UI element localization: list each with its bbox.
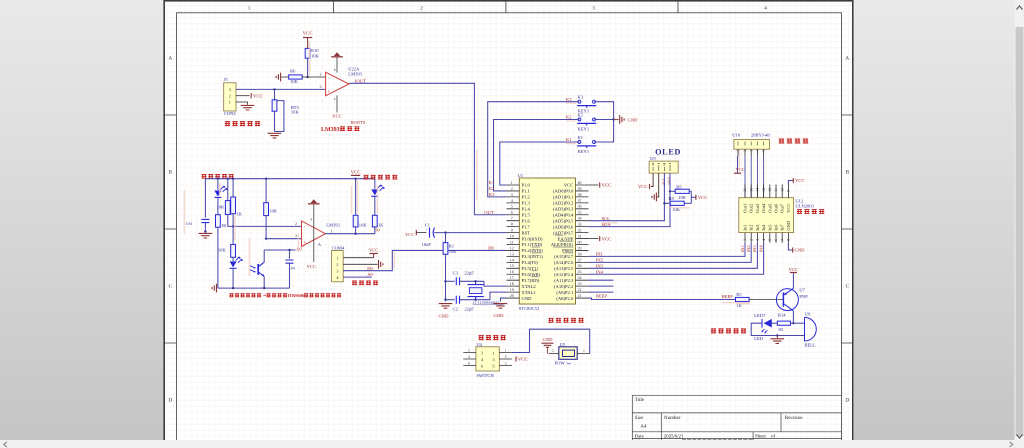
svg-text:GND: GND — [628, 117, 639, 122]
svg-text:22pF: 22pF — [464, 307, 474, 312]
svg-text:4: 4 — [764, 5, 767, 11]
svg-text:SCL: SCL — [602, 216, 611, 221]
caption power indicator LED — [202, 174, 207, 179]
caption signal indicator LED — [364, 175, 369, 180]
svg-text:-: - — [328, 75, 330, 81]
wire SCL OLED to MCU pin34 — [589, 173, 665, 221]
GND ULN pin8 — [788, 243, 793, 250]
svg-text:15: 15 — [749, 188, 753, 192]
svg-text:IN4: IN4 — [758, 245, 763, 253]
resistor 10K branch c — [265, 179, 267, 203]
svg-text:XTAL1: XTAL1 — [522, 290, 537, 295]
svg-text:VCC: VCC — [564, 183, 573, 188]
svg-text:30: 30 — [578, 239, 582, 244]
svg-text:KEY1: KEY1 — [578, 127, 590, 132]
svg-text:Number: Number — [664, 415, 681, 421]
svg-text:P1.5: P1.5 — [522, 212, 531, 217]
ground module bottom side — [212, 284, 216, 293]
svg-text:2: 2 — [229, 93, 231, 98]
svg-text:(AD1)P0.1: (AD1)P0.1 — [553, 195, 574, 200]
svg-text:5: 5 — [762, 150, 766, 152]
svg-text:Date: Date — [635, 433, 644, 439]
svg-text:24: 24 — [578, 275, 582, 280]
svg-text:4: 4 — [511, 198, 513, 203]
LED D1 power indicator — [217, 179, 219, 190]
svg-text:1: 1 — [229, 100, 231, 105]
svg-text:1: 1 — [336, 255, 338, 260]
svg-text:32: 32 — [578, 228, 582, 233]
svg-text:Out1: Out1 — [743, 204, 748, 213]
svg-text:K3: K3 — [489, 192, 495, 197]
svg-text:VCC: VCC — [698, 195, 708, 201]
svg-text:10K: 10K — [217, 205, 226, 210]
op-amp U22A power pins — [336, 58, 338, 73]
svg-text:In4: In4 — [761, 224, 766, 231]
svg-text:3: 3 — [493, 357, 495, 362]
svg-text:3: 3 — [320, 84, 322, 89]
svg-text:39: 39 — [578, 186, 582, 191]
wire IN2 — [589, 243, 752, 263]
ground crystal left — [439, 304, 453, 309]
svg-text:K1: K1 — [489, 180, 495, 185]
svg-text:(AD5)P0.5: (AD5)P0.5 — [553, 218, 574, 223]
svg-text:P3.1(TXD): P3.1(TXD) — [522, 242, 543, 247]
svg-text:VCC: VCC — [303, 31, 313, 37]
wire IN3 — [589, 243, 758, 268]
svg-text:6: 6 — [774, 239, 778, 241]
svg-text:(AD3)P0.3: (AD3)P0.3 — [553, 207, 574, 212]
svg-text:R5: R5 — [736, 292, 742, 297]
resistor 10K lower — [232, 226, 234, 244]
svg-text:VCC: VCC — [351, 169, 361, 175]
title block — [632, 395, 841, 448]
svg-text:PSEN: PSEN — [562, 248, 574, 253]
resistor R1 10K — [445, 233, 447, 243]
svg-text:LED7: LED7 — [754, 313, 766, 318]
wire IN4 — [589, 243, 764, 274]
svg-text:8: 8 — [787, 239, 791, 241]
svg-text:10K: 10K — [218, 248, 227, 253]
resistor R8 pullup — [663, 202, 665, 204]
svg-text:11: 11 — [510, 239, 514, 244]
svg-text:GND: GND — [494, 313, 505, 318]
svg-text:ALE/PROG: ALE/PROG — [551, 242, 574, 247]
svg-text:22pF: 22pF — [464, 271, 474, 276]
svg-text:LM393: LM393 — [321, 127, 340, 133]
svg-text:12: 12 — [510, 245, 514, 250]
svg-text:1K: 1K — [778, 327, 784, 332]
svg-text:SDA: SDA — [667, 177, 672, 185]
caption buzzer alarm — [711, 329, 716, 334]
svg-text:VCC: VCC — [638, 184, 648, 190]
svg-text:23: 23 — [578, 281, 582, 286]
svg-text:OLED: OLED — [655, 148, 681, 157]
COM4 pin3 D0 wire — [343, 250, 506, 270]
wire IN1 — [589, 243, 746, 257]
stepper pin stubs — [738, 149, 764, 156]
svg-text:Out3: Out3 — [755, 203, 760, 213]
svg-text:Revision: Revision — [785, 415, 803, 421]
svg-text:+: + — [327, 89, 330, 95]
driver U12 ULN2003 — [739, 198, 794, 233]
svg-text:K2: K2 — [566, 115, 572, 120]
wire stub MCU pin23 — [589, 285, 614, 287]
svg-text:Out5: Out5 — [767, 203, 772, 213]
svg-text:VCC: VCC — [518, 357, 528, 363]
svg-text:12: 12 — [768, 188, 772, 192]
svg-text:(A8)P2.0: (A8)P2.0 — [556, 296, 574, 301]
svg-text:BELL: BELL — [805, 343, 817, 348]
svg-text:1: 1 — [248, 5, 251, 11]
svg-text:2: 2 — [295, 221, 297, 226]
svg-text:Out2: Out2 — [749, 204, 754, 213]
svg-text:8: 8 — [310, 217, 312, 221]
svg-text:1K: 1K — [221, 223, 227, 228]
LED D2 emitter — [230, 261, 237, 267]
svg-text:In3: In3 — [755, 224, 760, 231]
svg-text:10uF: 10uF — [422, 242, 432, 247]
ground (side) left of R6 — [276, 73, 280, 82]
svg-text:C2: C2 — [453, 307, 459, 312]
svg-text:3: 3 — [229, 87, 231, 92]
wire crystal to XTAL2 — [484, 281, 507, 286]
push button K2 KEY1 — [578, 118, 581, 121]
svg-text:(AD4)P0.4: (AD4)P0.4 — [553, 212, 574, 217]
svg-text:10K: 10K — [311, 53, 320, 58]
resistor R6 — [289, 75, 303, 79]
svg-text:28: 28 — [578, 251, 582, 256]
svg-text:A0: A0 — [367, 272, 373, 277]
resistor 1K signal — [372, 215, 377, 227]
svg-text:29: 29 — [578, 245, 582, 250]
svg-text:C: C — [169, 284, 173, 290]
svg-text:15: 15 — [510, 263, 514, 268]
svg-text:P1.7: P1.7 — [522, 224, 531, 229]
VCC bracket MCU pin40 — [589, 184, 599, 186]
svg-text:VCC: VCC — [786, 204, 791, 213]
COM4 pin4 A0 wire — [343, 276, 372, 278]
svg-text:P1.1: P1.1 — [522, 189, 531, 194]
resistor 10K pullup — [355, 179, 357, 216]
svg-text:20: 20 — [510, 293, 514, 298]
svg-text:P3.6(WR): P3.6(WR) — [522, 272, 541, 277]
svg-text:10K: 10K — [449, 249, 458, 254]
svg-text:2: 2 — [320, 71, 322, 76]
svg-text:1K: 1K — [378, 222, 384, 227]
svg-text:IN1: IN1 — [740, 246, 745, 253]
svg-text:7: 7 — [780, 239, 784, 241]
svg-text:3: 3 — [336, 268, 338, 273]
svg-text:P1.0: P1.0 — [522, 183, 531, 188]
svg-text:Out7: Out7 — [780, 203, 785, 213]
svg-text:3: 3 — [592, 5, 595, 11]
svg-text:P1.3: P1.3 — [522, 201, 531, 206]
OLED pin1 VCC — [651, 173, 653, 186]
svg-text:(AD7)P0.7: (AD7)P0.7 — [553, 230, 574, 235]
svg-text:D: D — [845, 398, 849, 404]
capacitor 104 branch — [204, 179, 206, 218]
svg-text:U7: U7 — [799, 287, 805, 292]
svg-text:XTAL2: XTAL2 — [522, 284, 537, 289]
svg-text:3: 3 — [295, 233, 297, 238]
wire crystal to XTAL1 — [490, 292, 507, 300]
svg-text:2: 2 — [336, 262, 338, 267]
svg-text:GND: GND — [439, 314, 450, 319]
svg-text:SCL: SCL — [661, 177, 666, 185]
caption water level sensor — [225, 121, 230, 126]
svg-text:2: 2 — [749, 239, 753, 241]
svg-text:1: 1 — [330, 228, 332, 233]
transistor U7 PNP — [776, 289, 798, 311]
svg-text:31: 31 — [578, 233, 582, 238]
svg-text:14: 14 — [756, 188, 760, 192]
wire stub MCU pin24 — [589, 279, 614, 281]
svg-text:R5: R5 — [676, 185, 682, 190]
svg-text:R8: R8 — [669, 196, 675, 201]
svg-text:37: 37 — [578, 198, 582, 203]
svg-text:10: 10 — [780, 188, 784, 192]
svg-text:KEY1: KEY1 — [578, 149, 590, 154]
svg-text:13: 13 — [762, 188, 766, 192]
svg-text:(A11)P2.3: (A11)P2.3 — [554, 278, 574, 283]
svg-text:2: 2 — [481, 350, 483, 355]
svg-text:17: 17 — [510, 275, 514, 280]
svg-text:19: 19 — [510, 287, 514, 292]
svg-text:D: D — [168, 398, 172, 404]
svg-text:10K: 10K — [290, 79, 299, 84]
capacitor 104 lower — [289, 250, 291, 259]
svg-text:U4: U4 — [476, 342, 482, 347]
wire emitter to VCC — [792, 273, 794, 289]
svg-text:4: 4 — [762, 239, 766, 241]
svg-text:2: 2 — [552, 349, 554, 353]
svg-text:In1: In1 — [743, 225, 748, 231]
module bottom rail — [218, 287, 290, 289]
svg-text:5: 5 — [493, 363, 495, 368]
vertical scrollbar — [1015, 0, 1024, 440]
svg-text:7: 7 — [511, 216, 513, 221]
svg-text:10K: 10K — [291, 109, 300, 114]
wire op-amp A output — [325, 233, 374, 235]
svg-text:LM393: LM393 — [326, 223, 340, 228]
node junction pin3/RT3 — [273, 88, 275, 90]
svg-text:(AD2)P0.2: (AD2)P0.2 — [553, 201, 574, 206]
svg-text:ITR9606: ITR9606 — [288, 293, 305, 298]
op-amp A power pins — [313, 205, 315, 263]
svg-text:K3: K3 — [566, 97, 572, 102]
svg-text:104: 104 — [186, 221, 192, 226]
VCC ULN COM pin9 — [788, 181, 793, 185]
svg-text:K2: K2 — [489, 186, 495, 191]
svg-text:K3: K3 — [578, 95, 584, 100]
ground buzzer — [776, 336, 778, 339]
caption power input terminal — [548, 318, 553, 323]
svg-text:8: 8 — [334, 68, 336, 72]
wire collector — [792, 311, 794, 323]
svg-text:IN1: IN1 — [596, 252, 603, 257]
svg-text:22: 22 — [578, 287, 582, 292]
svg-text:1K: 1K — [236, 212, 242, 217]
power VCC signal rail — [351, 174, 360, 176]
resistor R10 — [305, 48, 310, 58]
svg-text:OUT: OUT — [484, 210, 494, 215]
svg-text:1: 1 — [493, 350, 495, 355]
svg-text:LED: LED — [754, 336, 764, 341]
svg-text:C: C — [846, 284, 850, 290]
COM4 pin1 VCC — [343, 257, 373, 259]
svg-text:33: 33 — [578, 222, 582, 227]
svg-text:D0: D0 — [367, 266, 373, 271]
svg-text:B: B — [846, 170, 850, 176]
svg-text:-: - — [304, 224, 306, 230]
svg-text:EA/VPP: EA/VPP — [557, 236, 573, 241]
svg-text:VCC: VCC — [789, 267, 798, 272]
svg-text:9: 9 — [787, 190, 791, 192]
svg-text:VCC: VCC — [602, 183, 612, 189]
svg-text:R14: R14 — [778, 313, 786, 318]
caption power switch — [479, 335, 484, 340]
wire to op-amp A pin2 — [228, 225, 302, 227]
svg-text:Title: Title — [635, 397, 645, 403]
svg-text:14: 14 — [510, 257, 514, 262]
wire IOUT to MCU pin6 — [349, 83, 507, 214]
resistor R5 pullup — [669, 190, 671, 192]
svg-text:1: 1 — [511, 180, 513, 185]
svg-text:5: 5 — [505, 361, 507, 365]
svg-text:5: 5 — [768, 239, 772, 241]
svg-text:VCC: VCC — [369, 248, 378, 253]
svg-text:POW: POW — [555, 361, 566, 366]
svg-text:VCC: VCC — [253, 93, 263, 99]
wire J5 pin3 to op-amp pin 3 — [236, 88, 326, 90]
wire R10 to inverting input — [307, 58, 309, 77]
node junction R10/R6 — [306, 76, 308, 78]
ULN2003 top pin stubs — [745, 185, 788, 198]
svg-text:PNP: PNP — [799, 294, 808, 299]
svg-text:In5: In5 — [767, 224, 772, 231]
wire A0 node — [264, 249, 295, 251]
COM4 pin2 ground — [343, 263, 377, 265]
svg-text:BEEP: BEEP — [596, 293, 607, 298]
VCC bracket MCU pin31 — [589, 238, 599, 240]
svg-text:K1: K1 — [566, 137, 572, 142]
wire to op-amp A pin3 — [266, 238, 301, 240]
svg-text:IOUT: IOUT — [355, 78, 366, 83]
op-amp U22A LM393 — [326, 72, 349, 96]
svg-text:VCC: VCC — [795, 178, 804, 183]
svg-text:9: 9 — [511, 228, 513, 233]
svg-text:(A9)P2.1: (A9)P2.1 — [556, 290, 574, 295]
svg-text:P3.2(INT0): P3.2(INT0) — [522, 248, 544, 253]
resistor R5 base — [736, 297, 750, 301]
svg-text:(A12)P2.4: (A12)P2.4 — [554, 272, 574, 277]
svg-text:21: 21 — [578, 293, 582, 298]
svg-text:SWITCH: SWITCH — [476, 373, 494, 378]
svg-text:6: 6 — [481, 363, 483, 368]
wire C1 to RST pin9 — [434, 232, 506, 234]
push button K3 KEY1 — [578, 100, 581, 103]
svg-text:3: 3 — [749, 150, 753, 152]
svg-text:10K: 10K — [359, 222, 368, 227]
resistor 10K branch a — [227, 179, 229, 201]
VCC stepper pin1 — [737, 156, 739, 173]
wire buttons right side — [594, 102, 613, 142]
svg-text:34: 34 — [578, 216, 582, 221]
ground J5 pin1 — [236, 102, 248, 105]
svg-text:Out6: Out6 — [774, 203, 779, 213]
svg-text:Out4: Out4 — [761, 203, 766, 213]
svg-text:IN2: IN2 — [596, 258, 603, 263]
svg-text:35: 35 — [578, 210, 582, 215]
push button K1 KEY1 — [578, 141, 581, 144]
caption drip detection module — [229, 293, 233, 297]
wire K3 to MCU pin3 — [488, 102, 580, 197]
svg-text:K2: K2 — [578, 112, 584, 117]
svg-text:10K: 10K — [269, 209, 278, 214]
svg-text:In2: In2 — [749, 225, 754, 231]
ground module left — [199, 233, 213, 238]
resistor 1K branch b — [232, 179, 234, 197]
svg-text:RST: RST — [522, 230, 531, 235]
LED D3 signal indicator — [374, 179, 376, 189]
VCC bracket switch pin3 — [515, 356, 517, 361]
svg-text:5: 5 — [511, 204, 513, 209]
crystal J1 11.0592MHZ — [469, 288, 482, 294]
svg-text:(A15)P2.7: (A15)P2.7 — [554, 254, 574, 259]
svg-text:U1: U1 — [518, 173, 524, 178]
VCC bracket pullups — [690, 191, 692, 203]
svg-text:U9: U9 — [650, 156, 656, 161]
svg-text:3: 3 — [505, 355, 507, 359]
ground MCU pin20 — [501, 298, 507, 301]
wire SDA OLED to MCU pin33 — [589, 173, 671, 227]
wire BEEP — [589, 298, 736, 299]
svg-text:VCC: VCC — [307, 264, 316, 269]
svg-text:ULN2003: ULN2003 — [795, 203, 814, 208]
wire R1 to ground rail — [445, 254, 447, 301]
svg-text:K1: K1 — [578, 135, 584, 140]
svg-text:VCC: VCC — [332, 113, 341, 118]
svg-text:36: 36 — [578, 204, 582, 209]
svg-text:A4: A4 — [640, 423, 647, 429]
svg-text:IN3: IN3 — [752, 246, 757, 253]
svg-text:(A13)P2.5: (A13)P2.5 — [554, 266, 574, 271]
svg-text:2: 2 — [511, 186, 513, 191]
power VCC symbol for R10 — [303, 37, 312, 39]
ground GND for keys — [614, 119, 619, 121]
svg-text:BOOT0: BOOT0 — [351, 120, 366, 125]
resistor 1K below LED — [216, 215, 221, 228]
svg-text:(AD6)P0.6: (AD6)P0.6 — [553, 224, 574, 229]
wires stepper to ULN outputs — [745, 156, 764, 198]
svg-text:6: 6 — [468, 361, 470, 365]
svg-text:38: 38 — [578, 192, 582, 197]
caption stepper motor — [779, 139, 784, 144]
svg-text:1: 1 — [505, 348, 507, 352]
svg-text:16: 16 — [743, 188, 747, 192]
svg-text:6: 6 — [511, 210, 513, 215]
svg-text:GND: GND — [786, 220, 791, 230]
svg-text:P1.4: P1.4 — [522, 207, 531, 212]
svg-text:R6: R6 — [290, 69, 296, 74]
wire R6 to op-amp pin 2 — [302, 76, 325, 78]
svg-text:D0: D0 — [488, 246, 494, 251]
wire LED7 to rail — [751, 323, 804, 335]
svg-text:C3: C3 — [453, 271, 459, 276]
svg-text:28BYJ-48: 28BYJ-48 — [751, 133, 770, 138]
wire switch pin1 to jack — [512, 329, 590, 353]
op-amp A LM393 — [302, 221, 326, 247]
